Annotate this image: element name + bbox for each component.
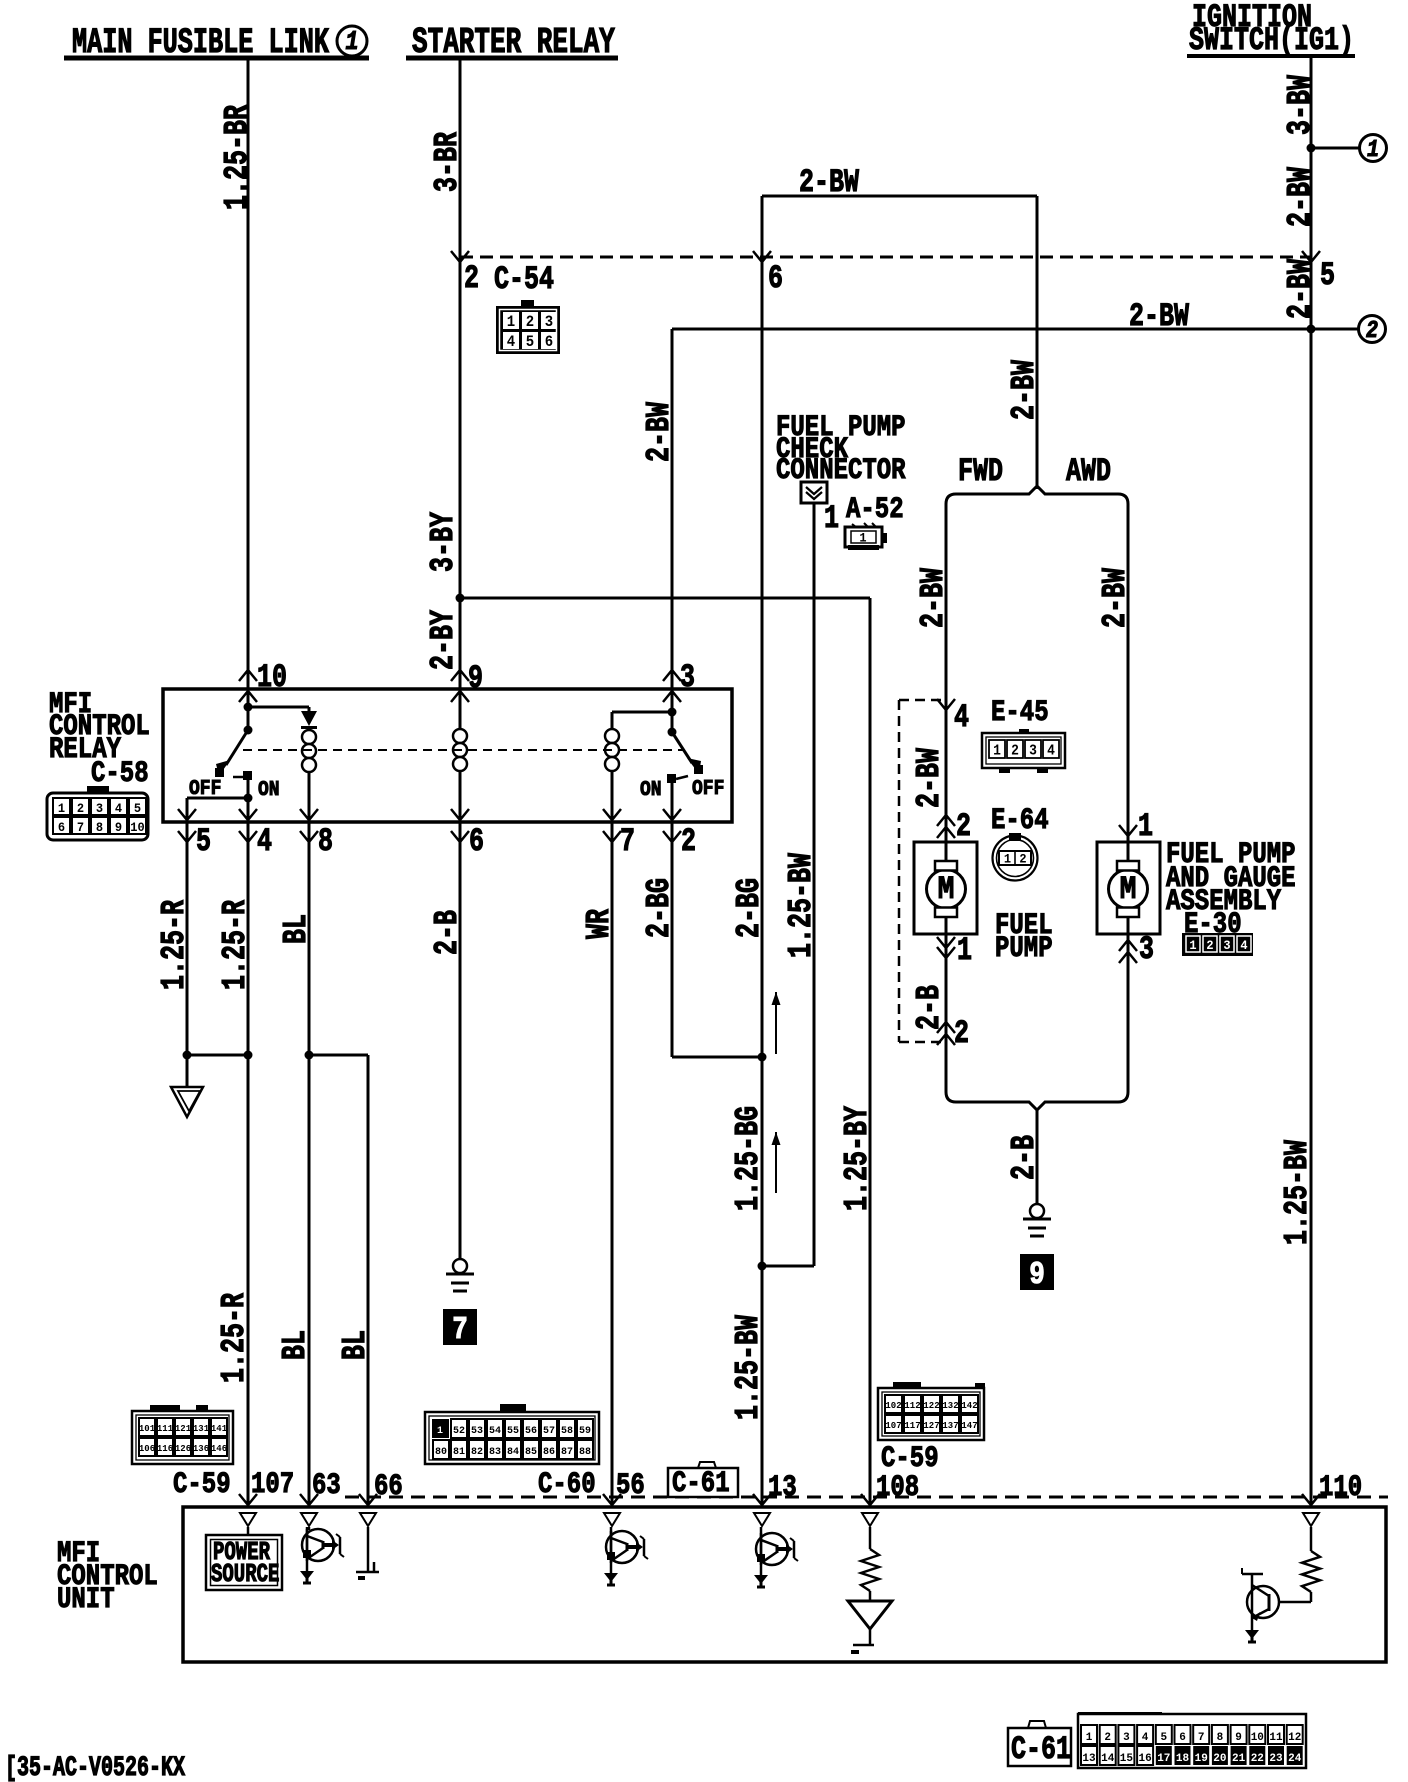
svg-text:4: 4 [954, 699, 969, 736]
svg-text:146: 146 [211, 1444, 227, 1454]
ground at pin 63 transistor [300, 1571, 314, 1580]
relay coil 1 (pins 10-8) [308, 729, 311, 822]
node relay right junction dot upper [668, 708, 677, 717]
svg-text:3: 3 [1029, 744, 1037, 760]
svg-text:112: 112 [904, 1401, 920, 1411]
svg-text:BL: BL [277, 914, 316, 944]
svg-text:2: 2 [464, 260, 479, 297]
node junction check wire into line 13 [758, 1262, 767, 1271]
connector boundary dashed line at MFI unit [345, 1496, 1388, 1499]
relay ON contact left [233, 771, 252, 780]
node relay right switch pivot dot [668, 728, 677, 737]
svg-text:2: 2 [1206, 939, 1213, 954]
connector check-connector icon [801, 482, 827, 503]
relay pin 3 arrows [663, 670, 681, 702]
ground at pin 110 transistor [1245, 1630, 1259, 1639]
svg-text:86: 86 [543, 1447, 555, 1458]
MFI pin 107 entry arrow [239, 1494, 257, 1535]
svg-text:C-58: C-58 [91, 757, 149, 791]
svg-text:107: 107 [885, 1421, 901, 1431]
svg-text:17: 17 [1157, 1753, 1170, 1765]
svg-text:2-BW: 2-BW [1281, 259, 1320, 319]
svg-text:127: 127 [923, 1421, 939, 1431]
svg-text:2: 2 [1019, 852, 1026, 867]
wire 1.25-R from relay pin 5 [186, 822, 189, 1087]
svg-text:3: 3 [96, 802, 103, 817]
node relay junction pin5 link [244, 794, 253, 803]
relay pin 9 arrows [451, 670, 469, 702]
svg-text:1.25-BR: 1.25-BR [218, 105, 257, 210]
svg-text:3-BW: 3-BW [1281, 75, 1320, 135]
node FUEL PUMP AND GAUGE ASSEMBLY label [1166, 838, 1296, 942]
wire 2-BG from relay pin 2 [672, 822, 762, 1057]
connector E-45 dashed FWD boundary [899, 700, 946, 1042]
wire 1.25-BY down to MFI pin 108 [869, 598, 872, 1507]
wire horizontal from junction to 1.25-BY line [460, 597, 870, 600]
svg-text:2-BW: 2-BW [799, 164, 860, 201]
svg-text:3: 3 [680, 659, 695, 696]
svg-text:136: 136 [193, 1444, 209, 1454]
connector E-30 icon [1182, 933, 1253, 956]
svg-text:1.25-BW: 1.25-BW [1278, 1140, 1317, 1245]
svg-text:UNIT: UNIT [57, 1583, 115, 1617]
relay internal wire ON contact to pin 2 [671, 783, 674, 822]
wire 2-BW horizontal to relay pin 3 [672, 328, 1311, 331]
node: MAIN FUSIBLE LINK underline [64, 56, 369, 61]
svg-text:1.25-R: 1.25-R [216, 900, 255, 990]
svg-text:80: 80 [435, 1447, 447, 1458]
connector E-45 icon [982, 729, 1065, 773]
node MFI CONTROL RELAY label [49, 688, 150, 791]
svg-text:2-BG: 2-BG [640, 878, 679, 938]
svg-text:4: 4 [507, 334, 516, 351]
svg-text:2-BG: 2-BG [730, 878, 769, 938]
svg-text:1: 1 [859, 531, 867, 546]
svg-text:131: 131 [193, 1424, 210, 1434]
svg-text:5: 5 [1160, 1732, 1167, 1744]
wire 2-BW left branch down (line to pin 13) [761, 196, 764, 1507]
svg-text:M: M [1120, 872, 1137, 908]
arrows pin 3 below AWD motor [1119, 940, 1137, 963]
svg-text:2-BW: 2-BW [1281, 167, 1320, 227]
svg-text:20: 20 [1213, 1753, 1226, 1765]
wire jumper pin5 to pin4 [187, 1054, 248, 1057]
svg-text:57: 57 [543, 1426, 555, 1437]
svg-text:BL: BL [276, 1330, 315, 1360]
svg-text:2-BW: 2-BW [640, 402, 679, 462]
svg-text:1.25-R: 1.25-R [155, 900, 194, 990]
svg-text:[35-AC-V0526-KX: [35-AC-V0526-KX [5, 1753, 185, 1782]
svg-text:101: 101 [139, 1424, 156, 1434]
svg-text:6: 6 [1179, 1732, 1186, 1744]
svg-text:13: 13 [768, 1471, 797, 1505]
svg-text:13: 13 [1082, 1753, 1096, 1765]
diode/comparator triangle at pin 108 [848, 1591, 892, 1654]
connector C-61 label box [668, 1462, 738, 1501]
wire 2-B from assembly to ground 9 [1036, 1110, 1039, 1204]
svg-text:58: 58 [561, 1426, 573, 1437]
flow arrow lower on line 13 [775, 1132, 777, 1193]
svg-text:6: 6 [768, 260, 783, 297]
svg-text:141: 141 [211, 1424, 228, 1434]
svg-text:E-64: E-64 [991, 804, 1049, 838]
svg-text:FWD: FWD [958, 453, 1003, 490]
connector C-54 dashed boundary line [460, 256, 1311, 259]
wire stub to circled terminal 1 [1311, 147, 1359, 150]
wire 2-B from relay pin 6 to ground 7 [459, 822, 462, 1259]
node junction to circled 1 [1307, 144, 1316, 153]
svg-text:C-59: C-59 [173, 1468, 231, 1502]
MFI pin 63 entry arrow [300, 1494, 318, 1530]
wire 2-BW top loop horizontal [762, 195, 1037, 198]
node circled terminal 1 [1360, 135, 1387, 164]
svg-text:85: 85 [525, 1447, 537, 1458]
svg-text:PUMP: PUMP [995, 932, 1053, 966]
relay pin 8 arrows [300, 809, 318, 842]
ground at pin 56 transistor [604, 1573, 618, 1582]
wire jumper check connector to line 13 [762, 1265, 814, 1268]
connector E-64 crossing arrows pin 2 [937, 815, 955, 838]
wire 1.25-R from relay pin 4 to MFI pin 107 [247, 822, 250, 1507]
transistor at MFI pin 110 [1242, 1568, 1311, 1630]
svg-text:ON: ON [258, 777, 280, 802]
svg-text:10: 10 [1251, 1732, 1264, 1744]
svg-text:2-B: 2-B [910, 985, 949, 1030]
svg-text:18: 18 [1176, 1753, 1190, 1765]
wire WR from relay pin 7 to MFI pin 56 [611, 822, 614, 1507]
connector C-61 bottom label box [1008, 1721, 1071, 1768]
diode in relay [301, 711, 317, 728]
svg-text:23: 23 [1269, 1753, 1283, 1765]
relay internal wire pin10 to switch [247, 689, 250, 730]
svg-text:1.25-BG: 1.25-BG [729, 1106, 768, 1211]
connector C-54 crossing arrow pin 6 [753, 251, 771, 262]
ground 9 [1030, 1204, 1044, 1218]
wire 2-BW right branch down to fuel tank assembly [1036, 196, 1039, 489]
connector C-58 icon [47, 786, 148, 840]
node junction at circled 2 [1307, 325, 1316, 334]
relay coil 2 (pins 9-6) [459, 689, 462, 822]
svg-text:1: 1 [1189, 939, 1197, 954]
svg-text:2-BW: 2-BW [1005, 360, 1044, 420]
svg-text:4: 4 [115, 802, 123, 817]
MFI pin 108 entry arrow [861, 1494, 879, 1549]
resistor at MFI pin 110 [1302, 1551, 1320, 1592]
MFI pin 110 entry arrow [1302, 1494, 1320, 1551]
svg-text:2-BW: 2-BW [1129, 298, 1190, 335]
svg-text:BL: BL [336, 1330, 375, 1360]
svg-text:84: 84 [507, 1447, 519, 1458]
connector E-30 crossing arrows pin 1 below FWD motor [937, 937, 955, 958]
svg-text:A-52: A-52 [846, 493, 904, 527]
svg-text:1: 1 [1138, 808, 1153, 845]
svg-text:2-BW: 2-BW [1096, 568, 1135, 628]
wire BL from relay pin 8 to MFI pin 63 [308, 822, 311, 1507]
svg-text:1: 1 [1367, 136, 1379, 163]
svg-text:6: 6 [545, 334, 553, 351]
relay internal wire pin 5 link [187, 798, 248, 822]
svg-text:56: 56 [616, 1469, 645, 1503]
svg-text:1: 1 [993, 744, 1001, 760]
svg-text:3-BR: 3-BR [428, 132, 467, 192]
svg-text:2-BW: 2-BW [914, 568, 953, 628]
connector C-59 right icon [878, 1382, 985, 1440]
relay pin 2 arrows [663, 809, 681, 842]
svg-text:116: 116 [157, 1444, 173, 1454]
svg-text:53: 53 [471, 1426, 483, 1437]
node junction pin2 into line 13 [758, 1053, 767, 1062]
svg-text:C-61: C-61 [672, 1467, 730, 1501]
relay internal wire to diode branch [248, 706, 309, 709]
wire 1.25-BR from main fusible link to relay pin 10 [247, 58, 250, 689]
svg-text:107: 107 [251, 1468, 294, 1502]
svg-text:14: 14 [1101, 1753, 1115, 1765]
svg-text:5: 5 [526, 334, 535, 351]
svg-text:4: 4 [257, 823, 272, 860]
relay mechanical linkage dashed line [243, 749, 683, 751]
svg-text:9: 9 [468, 660, 483, 697]
svg-text:8: 8 [96, 821, 103, 836]
svg-text:121: 121 [175, 1424, 192, 1434]
connector E-30 crossing arrow pin 1 AWD branch [1119, 825, 1137, 836]
connector C-60 icon [425, 1404, 599, 1464]
relay internal wire coil3 to pin3 wire [612, 712, 672, 728]
svg-text:66: 66 [374, 1470, 403, 1504]
transistor at MFI pin 63 [302, 1527, 344, 1572]
resistor at MFI pin 108 [861, 1549, 879, 1591]
svg-text:21: 21 [1232, 1753, 1246, 1765]
ground body (double triangle) after pin 5 [171, 1087, 203, 1117]
node: STARTER RELAY underline [406, 56, 618, 61]
svg-text:3: 3 [1123, 1732, 1130, 1744]
svg-text:SOURCE: SOURCE [211, 1559, 279, 1589]
svg-text:C-61: C-61 [1011, 1731, 1071, 1768]
MFI pin 56 entry arrow [603, 1494, 621, 1526]
svg-text:2-B: 2-B [428, 910, 467, 955]
svg-text:3: 3 [1223, 939, 1230, 954]
node junction pins 5-4 tie [183, 1051, 253, 1060]
connector C-61 bottom icon [1078, 1712, 1306, 1768]
svg-text:5: 5 [196, 823, 211, 860]
connector A-52 icon [845, 523, 887, 550]
svg-text:2: 2 [1011, 744, 1019, 760]
svg-text:CONNECTOR: CONNECTOR [776, 454, 906, 488]
svg-text:2: 2 [954, 1015, 969, 1052]
motor FWD fuel pump [914, 842, 977, 934]
svg-text:4: 4 [1047, 744, 1055, 760]
node MFI CONTROL UNIT label [57, 1537, 158, 1617]
relay OFF contact right [694, 765, 703, 774]
svg-text:2-BW: 2-BW [910, 748, 949, 808]
ground at pin 13 transistor [754, 1575, 768, 1584]
arrows pin 2 at FWD dashed boundary bottom [937, 1022, 955, 1045]
svg-text:10: 10 [130, 821, 144, 836]
svg-text:147: 147 [961, 1421, 977, 1431]
svg-text:3-BY: 3-BY [424, 512, 463, 572]
node circled terminal 2 [1359, 316, 1386, 345]
node: IGNITION SWITCH underline [1187, 54, 1355, 58]
svg-text:C-60: C-60 [538, 1468, 596, 1502]
svg-text:56: 56 [525, 1426, 537, 1437]
svg-text:117: 117 [904, 1421, 920, 1431]
svg-text:9: 9 [1235, 1732, 1242, 1744]
node relay junction dot upper [244, 703, 253, 712]
svg-text:11: 11 [1269, 1732, 1283, 1744]
relay pin 10 arrows [239, 670, 257, 702]
node junction 3-BY/2-BY split [456, 594, 465, 603]
svg-text:137: 137 [942, 1421, 958, 1431]
svg-text:AWD: AWD [1066, 453, 1111, 490]
svg-text:55: 55 [507, 1426, 519, 1437]
svg-text:122: 122 [923, 1401, 939, 1411]
svg-text:1: 1 [1086, 1732, 1093, 1744]
motor AWD fuel pump [1097, 842, 1160, 934]
svg-text:24: 24 [1288, 1753, 1302, 1765]
svg-text:ON: ON [640, 777, 662, 802]
svg-text:1: 1 [437, 1426, 443, 1437]
power source box in MFI unit [206, 1535, 282, 1590]
svg-text:8: 8 [1217, 1732, 1224, 1744]
wire fuel pump assembly loop FWD/AWD [946, 486, 1128, 1110]
connector C-59 left icon [132, 1405, 233, 1464]
transistor at MFI pin 56 [606, 1527, 648, 1574]
svg-text:54: 54 [489, 1426, 501, 1437]
svg-text:3: 3 [545, 314, 554, 331]
svg-text:9: 9 [1029, 1257, 1045, 1293]
relay switch arm right (OFF position) [672, 732, 701, 774]
MFI pin 13 entry arrow [753, 1494, 771, 1526]
svg-text:2: 2 [77, 802, 84, 817]
svg-text:102: 102 [885, 1401, 901, 1411]
svg-text:5: 5 [1320, 257, 1335, 294]
svg-text:C-54: C-54 [494, 261, 554, 298]
svg-text:111: 111 [157, 1424, 174, 1434]
relay OFF contact left [215, 768, 224, 777]
relay internal wire ON contact to pin 4 [247, 780, 250, 822]
svg-text:1: 1 [58, 802, 66, 817]
svg-text:87: 87 [561, 1447, 573, 1458]
svg-text:2: 2 [681, 823, 696, 860]
relay box MFI CONTROL RELAY C-58 [163, 689, 732, 822]
relay internal wire pin3 to right switch [671, 689, 674, 732]
svg-text:8: 8 [318, 823, 333, 860]
svg-text:16: 16 [1138, 1753, 1151, 1765]
relay ON contact right [667, 774, 688, 783]
svg-text:2: 2 [526, 314, 534, 331]
node junction BL branch [305, 1051, 314, 1060]
svg-text:2: 2 [1366, 317, 1378, 344]
svg-text:132: 132 [942, 1401, 958, 1411]
svg-text:5: 5 [134, 802, 141, 817]
svg-text:2: 2 [956, 808, 971, 845]
connector E-64 icon [993, 833, 1038, 881]
connector C-54 crossing arrow pin 5 [1302, 251, 1320, 262]
svg-text:1.25-BW: 1.25-BW [782, 853, 821, 958]
MFI pin 66 entry arrow [359, 1494, 377, 1526]
svg-text:SWITCH(IG1): SWITCH(IG1) [1189, 22, 1354, 59]
svg-text:12: 12 [1288, 1732, 1301, 1744]
svg-text:7: 7 [1198, 1732, 1205, 1744]
svg-text:10: 10 [257, 659, 287, 696]
svg-text:110: 110 [1319, 1471, 1362, 1505]
svg-text:88: 88 [579, 1447, 591, 1458]
node relay switch pivot dot [244, 726, 253, 735]
connector E-45 crossing arrow pin 4 [937, 699, 955, 710]
svg-text:M: M [938, 872, 955, 908]
wire 2-BW down to relay pin 3 [671, 329, 674, 689]
svg-text:83: 83 [489, 1447, 501, 1458]
svg-text:1: 1 [824, 500, 839, 537]
svg-text:82: 82 [471, 1447, 483, 1458]
wire BL branch jumper [309, 1055, 368, 1507]
svg-text:19: 19 [1195, 1753, 1208, 1765]
svg-text:9: 9 [115, 821, 122, 836]
svg-text:WR: WR [580, 909, 619, 939]
svg-text:1: 1 [507, 314, 516, 331]
svg-text:6: 6 [469, 823, 484, 860]
svg-text:7: 7 [77, 821, 84, 836]
svg-text:1: 1 [1004, 852, 1012, 867]
svg-text:4: 4 [1240, 939, 1248, 954]
connector C-54 crossing arrow pin 2 [451, 251, 469, 262]
svg-text:OFF: OFF [692, 776, 724, 801]
svg-text:15: 15 [1120, 1753, 1134, 1765]
termination at MFI pin 66 [356, 1527, 379, 1580]
relay pin 7 arrows [603, 809, 621, 842]
svg-text:59: 59 [579, 1426, 591, 1437]
relay coil 3 (pin 7) [611, 728, 614, 822]
node: IGNITION SWITCH(IG1) header [1189, 0, 1354, 59]
MFI control unit box [183, 1507, 1386, 1662]
node FUEL PUMP CHECK CONNECTOR label [776, 411, 906, 488]
wire 1.25-BW from check connector [813, 503, 816, 1266]
svg-text:2-BY: 2-BY [424, 610, 463, 670]
svg-text:142: 142 [961, 1401, 977, 1411]
svg-text:6: 6 [58, 821, 65, 836]
ground 7 [453, 1259, 467, 1273]
relay pin 5 arrows [178, 809, 196, 842]
wire 3-BR from starter relay down [459, 58, 462, 598]
svg-text:1: 1 [957, 932, 972, 969]
svg-text:4: 4 [1142, 1732, 1149, 1744]
svg-text:106: 106 [139, 1444, 155, 1454]
svg-text:1: 1 [345, 28, 358, 57]
svg-text:3: 3 [1139, 931, 1154, 968]
wire 3-BW from ignition switch [1310, 56, 1313, 1507]
label FUEL PUMP (center) [995, 909, 1053, 966]
svg-text:E-45: E-45 [991, 696, 1049, 730]
wire stub to circled terminal 2 [1311, 328, 1358, 331]
relay pin 6 arrows [451, 809, 469, 842]
svg-text:81: 81 [453, 1447, 465, 1458]
flow arrow upper on line 13 [775, 992, 777, 1054]
transistor at MFI pin 13 [756, 1527, 798, 1576]
svg-text:7: 7 [620, 823, 635, 860]
svg-text:7: 7 [452, 1312, 468, 1348]
wire 2-BY down to relay pin 9 [459, 598, 462, 689]
svg-text:108: 108 [876, 1471, 919, 1505]
relay pin 4 arrows [239, 809, 257, 842]
svg-text:126: 126 [175, 1444, 191, 1454]
svg-text:2-B: 2-B [1005, 1135, 1044, 1180]
relay switch arm left (OFF position) [216, 730, 248, 776]
svg-text:2: 2 [1104, 1732, 1111, 1744]
svg-text:22: 22 [1251, 1753, 1264, 1765]
svg-text:1.25-R: 1.25-R [215, 1293, 254, 1383]
svg-text:52: 52 [453, 1426, 465, 1437]
connector C-54 icon [496, 300, 560, 354]
svg-text:1.25-BW: 1.25-BW [729, 1315, 768, 1420]
